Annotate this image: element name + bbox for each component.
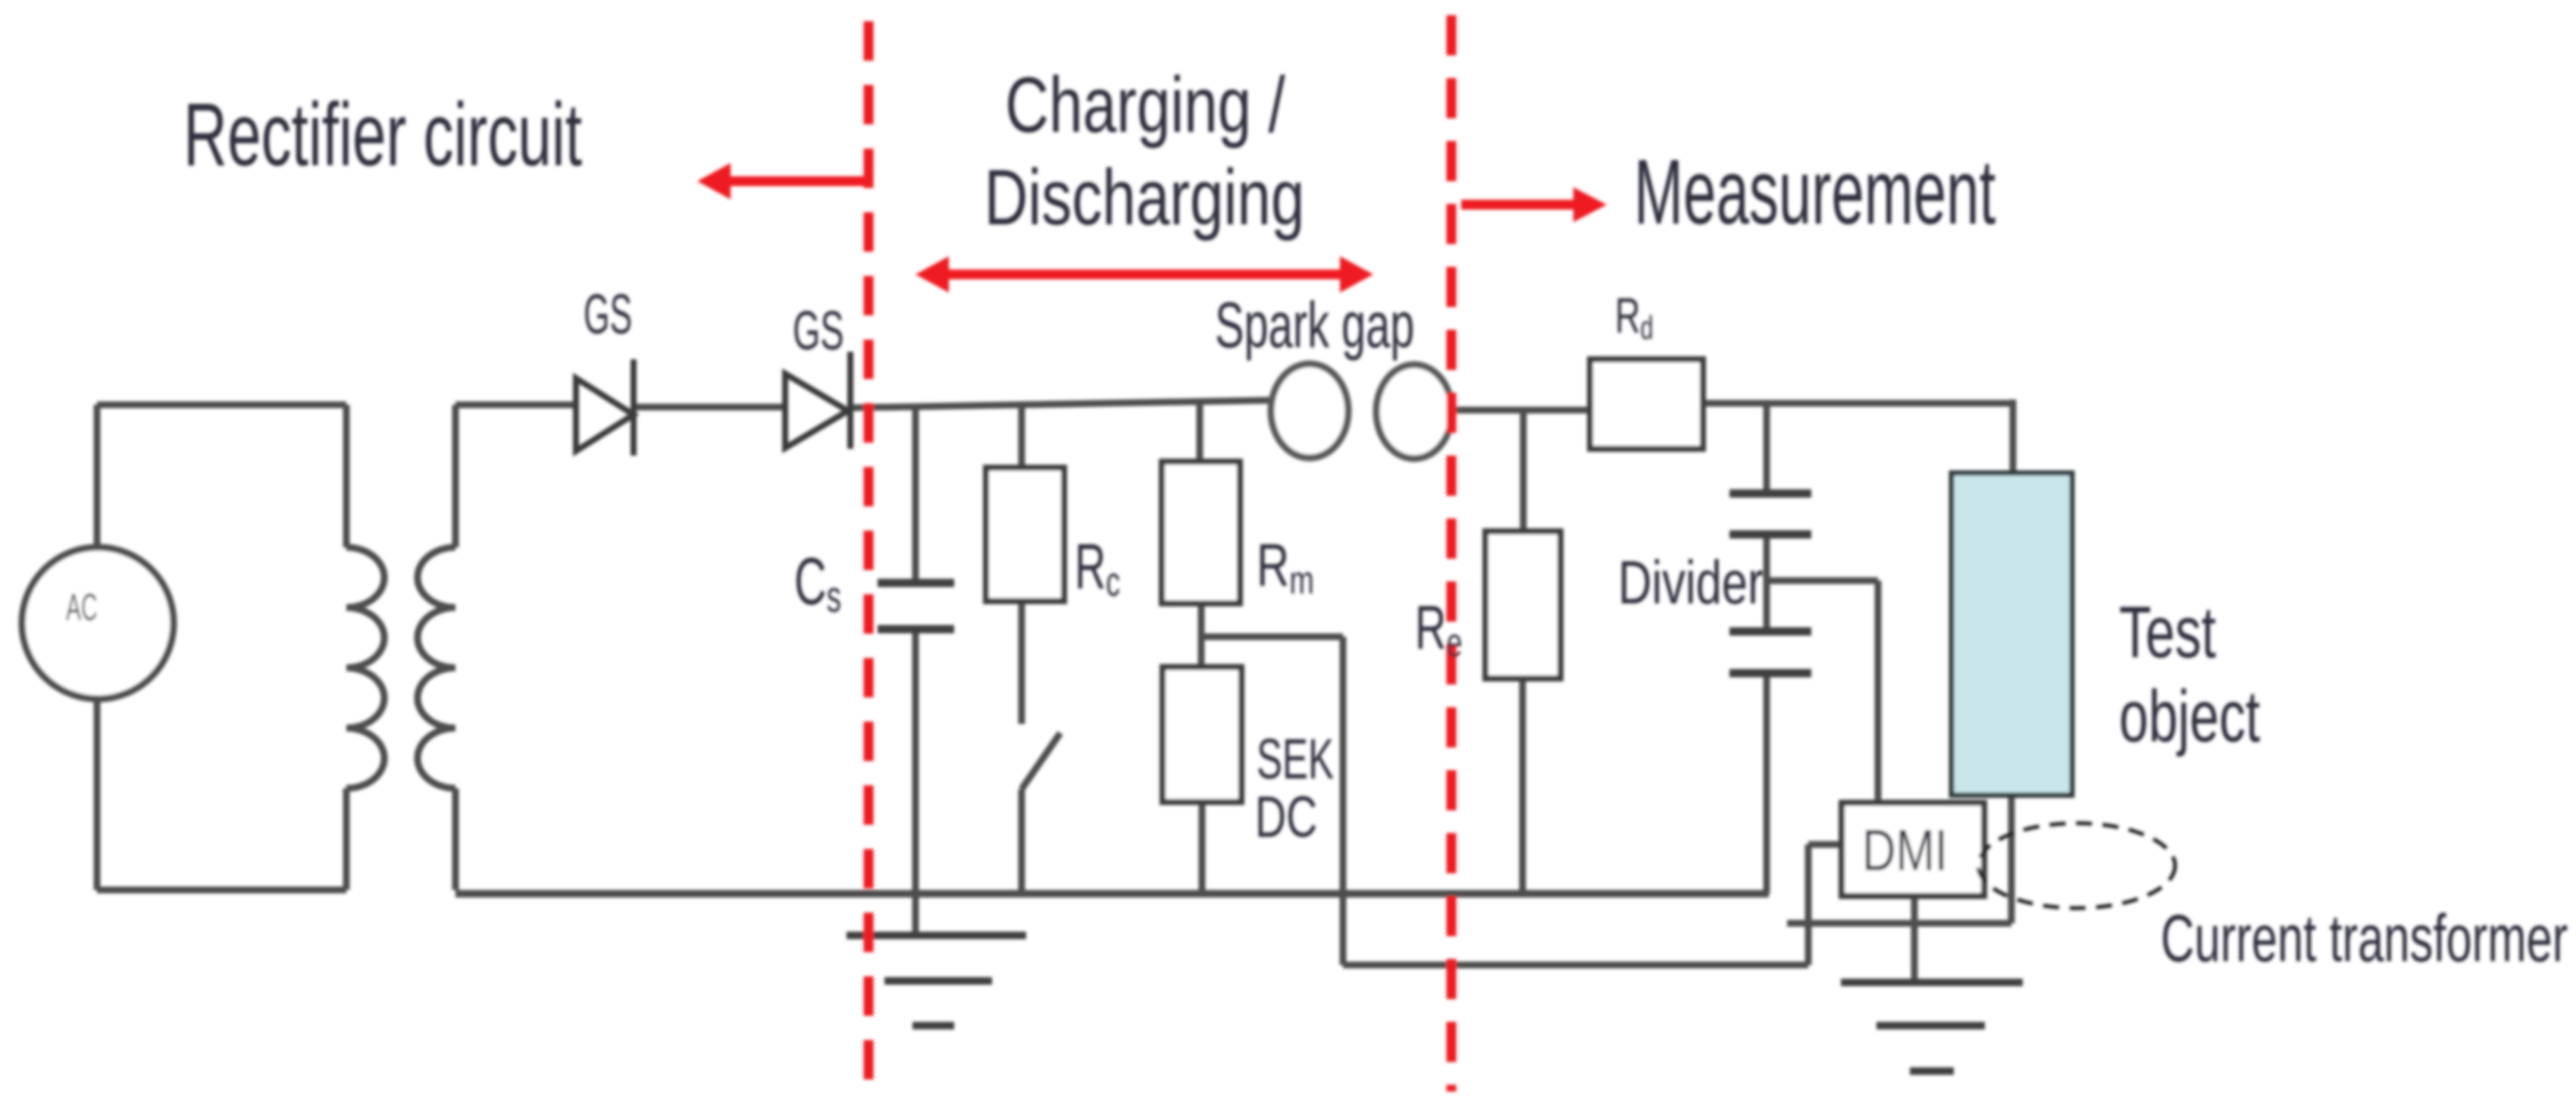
svg-text:Spark gap: Spark gap xyxy=(1215,290,1414,362)
svg-text:Charging /: Charging / xyxy=(1005,61,1285,149)
svg-text:Measurement: Measurement xyxy=(1634,139,1995,243)
svg-text:DMI: DMI xyxy=(1862,817,1948,882)
svg-text:Rc: Rc xyxy=(1075,531,1120,605)
svg-text:Discharging: Discharging xyxy=(984,153,1305,242)
svg-text:SEK: SEK xyxy=(1257,727,1334,791)
svg-text:Current transformer: Current transformer xyxy=(2161,901,2568,976)
svg-text:GS: GS xyxy=(793,300,844,362)
svg-text:object: object xyxy=(2119,675,2260,757)
svg-text:Divider: Divider xyxy=(1618,549,1764,617)
svg-text:Rectifier circuit: Rectifier circuit xyxy=(183,86,582,185)
svg-text:Rd: Rd xyxy=(1615,288,1653,347)
svg-text:Rm: Rm xyxy=(1257,531,1314,603)
svg-text:DC: DC xyxy=(1255,785,1317,850)
svg-text:Test: Test xyxy=(2119,591,2216,673)
svg-text:Cs: Cs xyxy=(794,544,841,622)
svg-text:GS: GS xyxy=(584,283,632,345)
svg-text:AC: AC xyxy=(66,586,98,628)
